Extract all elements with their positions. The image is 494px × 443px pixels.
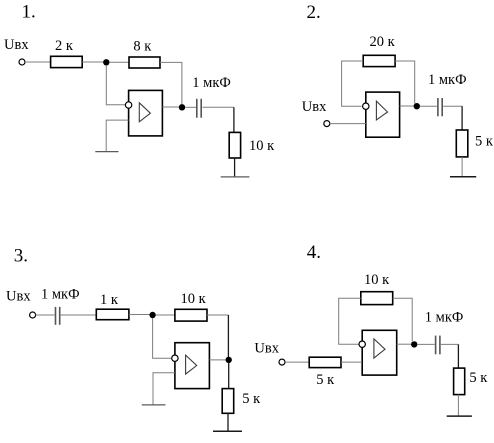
- svg-text:20 к: 20 к: [370, 34, 396, 50]
- wire node B down to inverting input circuit 3: [153, 318, 172, 358]
- resistor 5k input circuit 4: [309, 357, 341, 388]
- wire R 10k to output node circuit 3: [207, 314, 229, 316]
- wire non-inverting input to ground: [106, 120, 128, 152]
- input terminal circuit 4: [279, 359, 285, 365]
- resistor 1k: [96, 292, 129, 320]
- wire output U2: [400, 105, 414, 107]
- svg-text:5 к: 5 к: [475, 134, 494, 150]
- wire vertical to R 5k circuit 2: [461, 106, 463, 130]
- resistor 10k circuit 1: [229, 132, 275, 158]
- inverting input bubble U1: [125, 102, 131, 108]
- resistor 8k: [129, 38, 160, 68]
- svg-text:10 к: 10 к: [249, 138, 275, 154]
- svg-text:1 к: 1 к: [100, 292, 119, 308]
- wire node A to R 8k: [109, 61, 129, 63]
- wire node A down to inverting input: [106, 65, 125, 105]
- op-amp U3: [175, 343, 210, 389]
- ground circuit 4: [447, 415, 472, 417]
- output node dot circuit 4: [411, 341, 417, 347]
- input terminal circuit 2: [324, 121, 330, 127]
- capacitor 1uF circuit 4: [425, 310, 464, 355]
- svg-text:Uвх: Uвх: [4, 37, 29, 53]
- wire output U4: [397, 343, 411, 345]
- wire capacitor to R 10k: [203, 106, 234, 108]
- wire to capacitor 2: [420, 105, 437, 107]
- wire R 5k to ground circuit 3: [227, 413, 229, 431]
- wire R 5k to non-inverting input circuit 4: [341, 361, 362, 363]
- wire feedback right to output node circuit 4: [393, 298, 413, 341]
- ground op-amp U1: [95, 151, 118, 153]
- ground op-amp U3: [142, 404, 166, 406]
- svg-text:10 к: 10 к: [364, 272, 390, 288]
- input terminal circuit 1: [19, 59, 25, 65]
- wire non-inverting input to ground circuit 3: [153, 373, 175, 405]
- wire input to R 5k circuit 4: [285, 361, 309, 363]
- wire capacitor to R 5k circuit 2: [443, 105, 462, 107]
- ground circuit 2: [450, 176, 476, 178]
- wire vertical to R 10k circuit 1: [233, 107, 235, 132]
- output node dot circuit 1: [179, 104, 185, 110]
- wire R 1k to node B: [129, 314, 150, 316]
- svg-text:Uвх: Uвх: [302, 99, 327, 115]
- inverting input bubble U3: [172, 355, 178, 361]
- svg-text:2 к: 2 к: [55, 38, 74, 54]
- inverting input bubble U4: [359, 341, 365, 347]
- wire vertical to output node circuit 3: [227, 315, 229, 357]
- input terminal circuit 3: [30, 312, 36, 318]
- wire input to R 2k: [25, 61, 51, 63]
- wire input to non-inverting input: [330, 123, 366, 125]
- resistor 20k feedback: [363, 34, 395, 67]
- svg-text:1 мкФ: 1 мкФ: [425, 310, 464, 326]
- wire input to capacitor 3: [36, 314, 55, 316]
- wire vertical to R 5k output circuit 4: [457, 344, 459, 368]
- svg-text:1 мкФ: 1 мкФ: [192, 75, 231, 91]
- svg-text:1 мкФ: 1 мкФ: [41, 286, 80, 302]
- resistor 10k circuit 3: [175, 291, 207, 321]
- wire capacitor to R 1k: [61, 314, 97, 316]
- svg-text:5 к: 5 к: [242, 391, 261, 407]
- svg-text:10 к: 10 к: [181, 291, 207, 307]
- wire R 10k to ground: [234, 158, 236, 177]
- capacitor 1uF circuit 3: [41, 286, 80, 324]
- inverting input bubble U2: [363, 103, 369, 109]
- wire R 5k to ground circuit 4: [457, 395, 459, 417]
- wire R 2k to node A: [82, 61, 103, 63]
- wire output node to R 5k circuit 3: [228, 363, 230, 389]
- svg-text:4.: 4.: [307, 242, 321, 263]
- wire feedback left to inverting input: [342, 61, 364, 106]
- wire R 5k to ground circuit 2: [461, 157, 463, 177]
- resistor 5k circuit 3: [222, 389, 261, 414]
- svg-text:8 к: 8 к: [133, 38, 152, 54]
- wire node B to R 10k circuit 3: [156, 314, 175, 316]
- op-amp U2: [366, 92, 400, 137]
- capacitor 1uF circuit 2: [428, 72, 467, 116]
- op-amp U4: [362, 330, 397, 375]
- op-amp U1: [129, 90, 163, 135]
- wire output U3: [209, 359, 225, 361]
- resistor 10k feedback circuit 4: [361, 272, 393, 305]
- svg-text:3.: 3.: [14, 245, 28, 266]
- ground R 5k circuit 3: [213, 430, 242, 432]
- wire to capacitor 4: [417, 343, 434, 345]
- svg-text:Uвх: Uвх: [6, 289, 31, 305]
- svg-text:1 мкФ: 1 мкФ: [428, 72, 467, 88]
- svg-text:5 к: 5 к: [316, 372, 335, 388]
- capacitor 1uF circuit 1: [192, 75, 231, 118]
- wire feedback right to output node: [395, 61, 415, 104]
- wire output U1: [162, 106, 179, 108]
- wire feedback left to inverting input circuit 4: [339, 298, 361, 344]
- wire R 8k to output node: [160, 62, 182, 104]
- svg-text:Uвх: Uвх: [254, 341, 279, 357]
- node A junction dot: [103, 59, 109, 65]
- output node dot circuit 2: [414, 103, 420, 109]
- wire capacitor to R 5k output circuit 4: [441, 343, 459, 345]
- wire to capacitor 1: [185, 106, 196, 108]
- svg-text:2.: 2.: [307, 2, 321, 23]
- resistor 2k: [51, 38, 83, 68]
- node B junction dot: [149, 312, 155, 318]
- resistor 5k circuit 2: [456, 130, 494, 157]
- resistor 5k output circuit 4: [454, 368, 489, 395]
- output node dot circuit 3: [226, 357, 232, 363]
- ground R 10k circuit 1: [221, 176, 250, 178]
- svg-text:1.: 1.: [22, 2, 36, 23]
- svg-text:5 к: 5 к: [469, 370, 488, 386]
